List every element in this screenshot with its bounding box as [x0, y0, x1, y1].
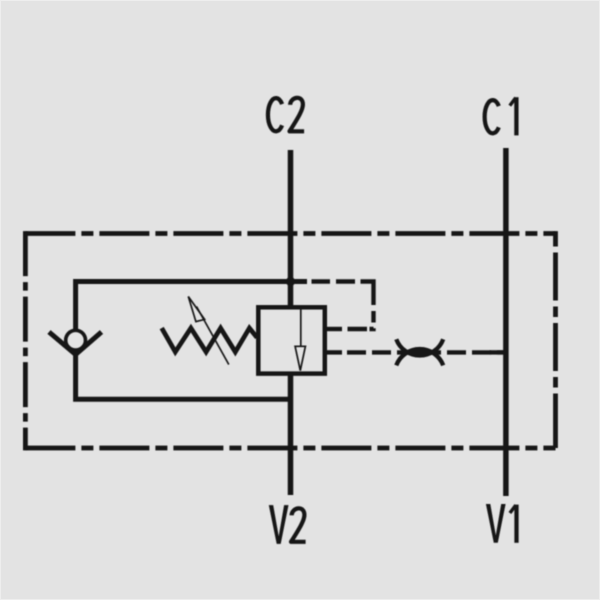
- restrictor upper arc: [396, 339, 443, 355]
- port label V2: [269, 505, 306, 544]
- counterbalance valve body square: [258, 307, 325, 373]
- adjustment arrowhead: [188, 297, 204, 322]
- wire check valve top branch: [76, 282, 307, 330]
- flow path stem inside valve: [300, 307, 302, 346]
- port label C2: [268, 98, 304, 131]
- enclosure dash-dot boundary left: [23, 231, 28, 450]
- restrictor lower arc: [396, 349, 443, 365]
- pilot line dashed valve lower port to C1: [347, 350, 504, 354]
- restrictor center pass-through segment: [408, 350, 432, 354]
- spring: [162, 328, 257, 352]
- wire C2 to valve top: [288, 150, 294, 307]
- pilot line dashed from junction to valve upper port: [312, 282, 374, 330]
- check valve seat V: [49, 332, 102, 355]
- adjustment arrow shaft: [197, 307, 229, 365]
- port label V1: [486, 504, 517, 543]
- valve lower port stub: [326, 350, 342, 354]
- enclosure dash-dot boundary bottom: [25, 446, 555, 451]
- enclosure dash-dot boundary top: [25, 231, 555, 236]
- enclosure dash-dot boundary right: [553, 231, 558, 450]
- flow path arrowhead inside valve: [295, 346, 305, 370]
- valve upper port stub: [326, 327, 342, 331]
- junction node at C2 and check branch: [286, 277, 295, 286]
- pilot line end stub at C1: [490, 350, 504, 354]
- wire valve bottom to V2: [288, 374, 294, 495]
- wire check valve bottom branch: [76, 352, 291, 399]
- wire C1 to V1: [503, 148, 509, 496]
- check valve ball circle: [66, 330, 86, 350]
- port label C1: [485, 97, 517, 135]
